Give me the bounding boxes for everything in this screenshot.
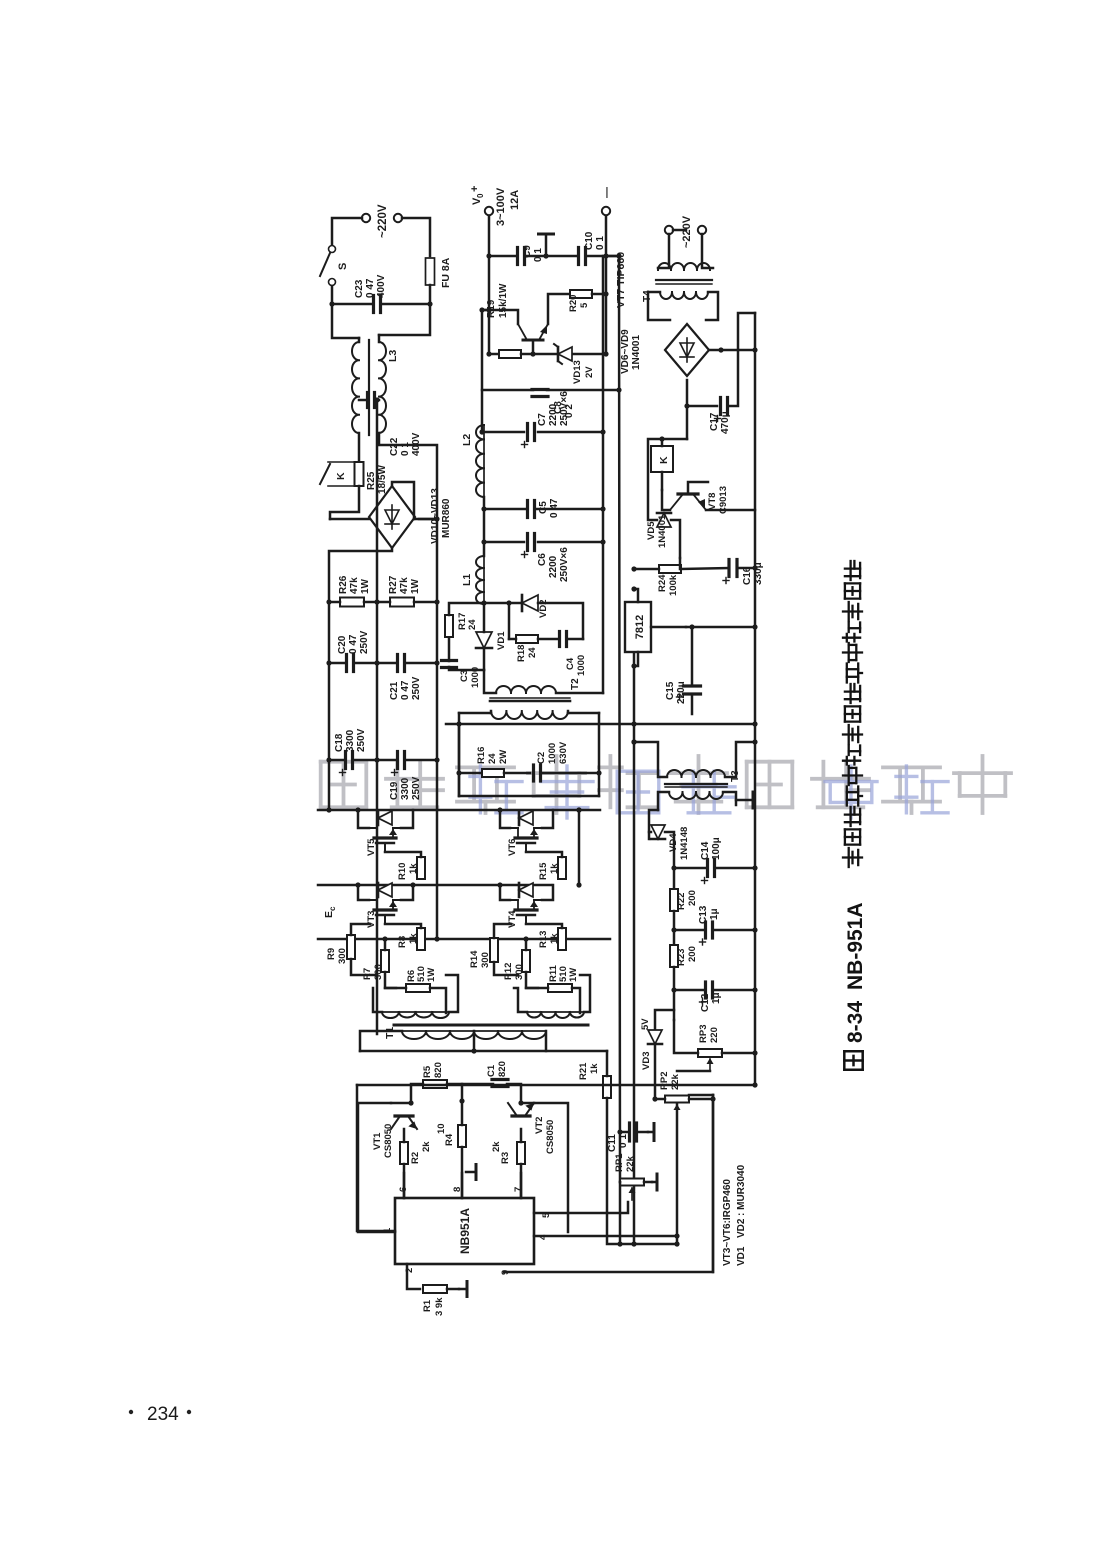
wire <box>446 975 458 1012</box>
wire <box>689 1094 713 1097</box>
wire <box>592 293 606 296</box>
svg-text:C20: C20 <box>337 635 348 654</box>
resistor R19 <box>499 350 521 358</box>
svg-text:VD1: VD1 <box>496 631 507 650</box>
wire <box>728 350 738 406</box>
svg-text:C2: C2 <box>536 752 547 764</box>
wire <box>586 255 619 258</box>
wire <box>494 924 511 938</box>
svg-text:5: 5 <box>579 302 590 308</box>
junction <box>752 865 757 870</box>
junction <box>600 429 605 434</box>
resistor R20 <box>570 290 592 298</box>
wire <box>500 885 510 900</box>
pot RP1 <box>620 1179 644 1186</box>
capacitor C13 <box>704 922 707 938</box>
svg-text:R19: R19 <box>486 299 497 318</box>
svg-text:250V: 250V <box>411 776 422 800</box>
wire <box>521 1102 534 1105</box>
transistor VT2 <box>512 1114 530 1117</box>
wire <box>738 313 755 350</box>
wire pin9 <box>504 1095 713 1272</box>
svg-text:VD1: VD1 <box>736 1246 747 1266</box>
transformer T1 drive winding a <box>382 1012 449 1018</box>
svg-text:400V: 400V <box>376 274 387 298</box>
svg-text:250V: 250V <box>411 676 422 700</box>
wire <box>392 482 414 519</box>
wire <box>373 988 382 1012</box>
junction <box>576 807 581 812</box>
svg-text:C23: C23 <box>354 279 365 298</box>
wire <box>484 508 527 511</box>
wire DC+ rail <box>318 809 600 812</box>
capacitor C17 <box>719 398 722 415</box>
svg-text:100k: 100k <box>668 574 679 596</box>
junction <box>752 565 757 570</box>
wire <box>459 712 491 715</box>
capacitor C8 <box>532 395 548 398</box>
svg-text:CS8050: CS8050 <box>383 1124 394 1158</box>
svg-text:15k/1W: 15k/1W <box>498 283 509 318</box>
svg-text:R3: R3 <box>500 1152 511 1164</box>
transformer T4 core <box>656 279 712 281</box>
wire <box>353 759 397 762</box>
capacitor C1 <box>492 1085 508 1088</box>
wire <box>483 604 486 632</box>
transformer T1 core <box>394 1024 588 1027</box>
ground <box>459 1288 467 1291</box>
wire <box>449 603 484 615</box>
wire <box>649 831 651 834</box>
svg-text:234: 234 <box>147 1404 179 1425</box>
svg-text:VT4: VT4 <box>507 910 518 928</box>
svg-text:R22: R22 <box>676 893 687 910</box>
svg-text:L2: L2 <box>461 434 473 446</box>
wire <box>691 627 694 686</box>
resistor R15 <box>558 857 566 879</box>
junction <box>684 403 689 408</box>
junction <box>329 301 334 306</box>
junction <box>326 660 331 665</box>
wire <box>649 810 658 839</box>
wire <box>351 924 370 935</box>
svg-text:R18: R18 <box>516 645 527 662</box>
wire <box>484 602 521 605</box>
wire x940 <box>482 389 533 392</box>
svg-text:1N4001: 1N4001 <box>631 335 642 370</box>
svg-text:3300: 3300 <box>400 777 411 800</box>
svg-text:CS8050: CS8050 <box>545 1120 556 1154</box>
wire <box>379 304 430 335</box>
terminal aux N <box>698 226 706 234</box>
svg-text:1k: 1k <box>589 1063 600 1074</box>
wire return rail <box>602 256 605 693</box>
resistor R13 <box>558 928 566 950</box>
wire <box>482 431 524 434</box>
wire <box>403 1164 406 1198</box>
svg-text:C17: C17 <box>709 412 720 431</box>
svg-text:3 9k: 3 9k <box>434 1297 445 1316</box>
wire <box>542 810 553 828</box>
svg-text:200: 200 <box>687 946 698 962</box>
transformer T1 drive winding a axis <box>382 1011 449 1013</box>
wire <box>385 972 396 988</box>
wire pin6 <box>403 1173 406 1198</box>
wire <box>332 304 359 338</box>
svg-text:VT3: VT3 <box>366 911 377 928</box>
svg-text:C21: C21 <box>389 681 400 700</box>
wire rail316 <box>633 603 636 1244</box>
junction <box>631 739 636 744</box>
wire <box>673 990 676 1020</box>
zener VD13 <box>558 347 572 361</box>
wire <box>607 1098 620 1244</box>
wire <box>677 1070 710 1073</box>
wire Ec rail <box>318 884 551 887</box>
wire <box>357 1084 755 1087</box>
wire <box>351 959 377 975</box>
terminal AC N <box>394 214 402 222</box>
svg-text:C8: C8 <box>553 401 564 414</box>
wire rail437 <box>754 313 757 1085</box>
junction <box>631 586 636 591</box>
wire <box>509 638 516 641</box>
junction <box>374 397 379 402</box>
wire <box>375 399 379 402</box>
capacitor C21 <box>396 655 399 672</box>
transformer T3 core <box>665 783 727 785</box>
pot RP2 <box>665 1096 689 1103</box>
ground <box>648 1131 654 1134</box>
junction <box>752 1082 757 1087</box>
capacitor C3 <box>442 666 457 669</box>
svg-text:24: 24 <box>527 647 538 658</box>
wire <box>681 568 729 569</box>
wire <box>534 1103 568 1232</box>
svg-text:2: 2 <box>404 1268 415 1273</box>
svg-text:C7: C7 <box>537 413 548 426</box>
svg-text:C4: C4 <box>565 657 576 670</box>
wire <box>329 601 340 604</box>
wire <box>634 652 638 666</box>
wire <box>462 1083 493 1086</box>
wire <box>545 1031 548 1051</box>
svg-text:22k: 22k <box>670 1073 681 1090</box>
wire <box>330 518 369 521</box>
wire <box>665 832 674 868</box>
svg-text:0 1: 0 1 <box>618 1134 629 1148</box>
wire <box>637 1131 648 1134</box>
transformer T3 winding b <box>669 792 723 799</box>
wire <box>458 724 461 796</box>
junction <box>459 1098 464 1103</box>
wire <box>430 988 446 1013</box>
wire <box>458 713 461 796</box>
capacitor C9 <box>516 248 519 265</box>
svg-text:R8: R8 <box>397 936 408 948</box>
transistor VT4 <box>525 915 527 924</box>
junction <box>427 301 432 306</box>
svg-text:2200: 2200 <box>548 555 559 578</box>
junction <box>752 347 757 352</box>
svg-text:1000: 1000 <box>470 667 481 688</box>
diode VT5 body <box>378 811 392 825</box>
junction <box>456 770 461 775</box>
svg-text:630V: 630V <box>558 741 569 764</box>
resistor R8 <box>417 928 425 950</box>
wire <box>401 885 413 900</box>
switch S <box>329 246 336 253</box>
svg-text:10: 10 <box>436 1123 447 1134</box>
wire <box>331 286 334 304</box>
svg-text:RP2: RP2 <box>659 1072 670 1090</box>
diode VT3 body <box>378 883 392 897</box>
junction <box>752 927 757 932</box>
svg-text:VT2: VT2 <box>534 1117 545 1134</box>
svg-text:47k: 47k <box>349 577 360 594</box>
wire <box>448 638 451 661</box>
inductor L2 axis <box>483 425 485 497</box>
transformer T1 drive winding b axis <box>527 1011 584 1013</box>
capacitor C19 <box>396 752 399 769</box>
wire <box>461 1147 464 1198</box>
junction <box>671 927 676 932</box>
fuse FU <box>426 258 435 285</box>
svg-text:MUR860: MUR860 <box>441 498 452 538</box>
svg-text:—: — <box>601 187 613 198</box>
transformer T1 primary axis <box>402 1030 546 1032</box>
diode VD2 <box>522 595 538 611</box>
junction <box>543 253 548 258</box>
svg-text:C14: C14 <box>700 841 711 860</box>
capacitor C6 <box>526 534 529 551</box>
wire <box>548 294 570 324</box>
resistor R22 <box>670 889 678 911</box>
svg-text:1N4148: 1N4148 <box>679 827 690 860</box>
junction <box>410 882 415 887</box>
resistor R11 <box>548 984 572 992</box>
wire <box>507 1084 521 1103</box>
svg-text:T2: T2 <box>570 678 581 690</box>
resistor R3 <box>517 1142 525 1164</box>
junction <box>434 599 439 604</box>
wire <box>538 603 583 639</box>
wire <box>525 939 528 950</box>
wire <box>605 216 608 354</box>
svg-text:NB951A: NB951A <box>458 1208 472 1254</box>
svg-text:VT8: VT8 <box>707 493 718 510</box>
svg-text:100μ: 100μ <box>711 837 722 860</box>
svg-text:VT1: VT1 <box>372 1132 383 1150</box>
junction <box>674 1241 679 1246</box>
svg-text:24: 24 <box>487 753 498 764</box>
svg-text:C10: C10 <box>584 231 595 250</box>
watermark blue overlay <box>470 766 522 813</box>
svg-text:2k: 2k <box>421 1141 432 1152</box>
wire <box>329 759 345 762</box>
junction <box>497 807 502 812</box>
resistor R16 <box>482 769 504 777</box>
junction <box>631 721 636 726</box>
regulator 7812 box <box>625 602 651 652</box>
junction <box>374 757 379 762</box>
bridge rectifier VD10-VD13 <box>369 486 415 548</box>
svg-text:C15: C15 <box>665 681 676 700</box>
capacitor C5 <box>526 501 529 518</box>
wire <box>354 662 397 665</box>
watermark gray company text <box>321 762 367 808</box>
wire <box>379 433 437 519</box>
wire pin7 <box>520 1173 523 1198</box>
wire <box>446 723 755 726</box>
ground <box>736 799 753 802</box>
svg-text:VD2: VD2 <box>736 1218 747 1238</box>
wire <box>405 759 437 762</box>
svg-text:R14: R14 <box>469 950 480 968</box>
wire <box>686 380 689 406</box>
svg-text:24: 24 <box>467 619 478 630</box>
svg-text:K: K <box>658 456 670 464</box>
wire <box>654 1045 657 1099</box>
wire <box>661 472 664 490</box>
wire <box>358 810 369 828</box>
resistor R26 <box>340 598 364 607</box>
relay coil K <box>651 446 673 472</box>
junction <box>752 1050 757 1055</box>
transformer T2 secondary <box>496 686 556 693</box>
wire <box>713 929 755 932</box>
relay contact K <box>328 461 359 463</box>
wire <box>385 987 406 990</box>
junction <box>674 1233 679 1238</box>
wire <box>402 218 430 256</box>
junction <box>434 516 439 521</box>
junction <box>486 253 491 258</box>
wire <box>737 567 755 570</box>
svg-text:R15: R15 <box>538 862 549 880</box>
svg-text:0 47: 0 47 <box>348 634 359 654</box>
wire rail395 <box>712 1095 715 1272</box>
svg-text:470μ: 470μ <box>720 411 731 434</box>
transistor VT8 <box>678 492 698 495</box>
wire <box>385 924 421 928</box>
wire <box>482 309 489 312</box>
svg-text:~220V: ~220V <box>377 204 389 238</box>
wire <box>414 518 437 521</box>
wire rail359 <box>676 1104 679 1244</box>
junction <box>456 721 461 726</box>
wire <box>673 930 676 945</box>
svg-text:18/5W: 18/5W <box>377 465 388 494</box>
svg-text:K: K <box>335 472 347 480</box>
junction <box>752 624 757 629</box>
svg-text:VT7 TIP660: VT7 TIP660 <box>615 252 627 308</box>
resistor R4 <box>458 1125 466 1147</box>
svg-text:R12: R12 <box>503 963 514 980</box>
terminal aux L <box>665 226 673 234</box>
transistor VT3 <box>384 915 386 924</box>
resistor R18 <box>516 635 538 643</box>
svg-text:R5: R5 <box>422 1065 433 1078</box>
wire DC- rail <box>318 938 610 941</box>
wire <box>606 255 619 258</box>
capacitor C12 <box>704 982 707 998</box>
capacitor C11 <box>628 1123 631 1141</box>
svg-text:7: 7 <box>513 1187 524 1192</box>
wire <box>526 972 538 988</box>
wire <box>702 234 713 268</box>
wire <box>634 589 638 602</box>
caption figure title <box>844 1051 862 1069</box>
wire <box>721 349 755 352</box>
junction <box>710 1096 715 1101</box>
svg-text:1000: 1000 <box>547 743 558 764</box>
wire <box>429 285 432 304</box>
transformer T2 core <box>490 700 570 703</box>
junction <box>355 882 360 887</box>
junction <box>326 807 331 812</box>
svg-text:2V: 2V <box>584 366 595 378</box>
capacitor C18 <box>344 752 347 769</box>
resistor R6 <box>406 984 430 992</box>
svg-text:300: 300 <box>480 952 491 968</box>
wire <box>532 340 535 354</box>
resistor R7 <box>381 950 389 972</box>
wire <box>674 929 705 932</box>
junction <box>616 253 621 258</box>
svg-text:L3: L3 <box>387 350 399 362</box>
svg-text:0 47: 0 47 <box>365 278 376 298</box>
wire <box>358 1103 395 1232</box>
wire <box>436 519 439 939</box>
svg-text:R7: R7 <box>362 968 373 980</box>
svg-text:R9: R9 <box>326 948 337 960</box>
wire <box>686 406 689 439</box>
junction <box>479 307 484 312</box>
junction <box>596 770 601 775</box>
wire <box>401 810 413 828</box>
inductor L3 core <box>368 340 370 435</box>
resistor R10 <box>417 857 425 879</box>
wire <box>706 509 755 512</box>
svg-text:R4: R4 <box>444 1133 455 1146</box>
zener VD3 <box>648 1030 662 1044</box>
junction <box>355 807 360 812</box>
junction <box>631 1241 636 1246</box>
wire <box>658 234 669 268</box>
svg-text:R13: R13 <box>538 931 549 948</box>
svg-text:47k: 47k <box>399 577 410 594</box>
svg-text:C11: C11 <box>607 1134 618 1152</box>
svg-text:~220V: ~220V <box>681 215 693 248</box>
svg-text:R21: R21 <box>578 1062 589 1080</box>
page number 234 <box>129 1410 133 1414</box>
svg-text:3300: 3300 <box>345 729 356 752</box>
svg-text:VT5: VT5 <box>366 838 377 856</box>
wire <box>483 648 486 670</box>
junction <box>631 739 636 744</box>
svg-text:S: S <box>337 263 349 270</box>
wire <box>459 795 599 798</box>
svg-text:22k: 22k <box>625 1155 636 1172</box>
wire <box>447 1084 462 1101</box>
junction <box>497 882 502 887</box>
wire <box>500 810 510 828</box>
svg-text:VD10~VD13: VD10~VD13 <box>430 488 441 544</box>
svg-text:2W: 2W <box>498 750 509 764</box>
wire <box>359 399 367 402</box>
svg-text:VD13: VD13 <box>572 360 583 384</box>
